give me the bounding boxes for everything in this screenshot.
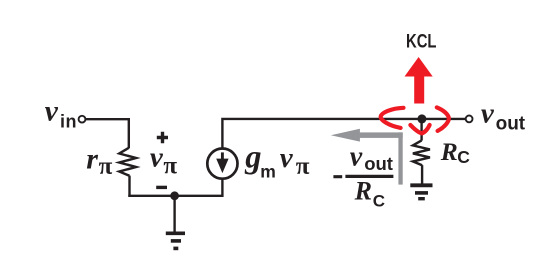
red curved stroke right (around node)	[437, 107, 449, 130]
current source bottom lead	[221, 179, 223, 197]
input terminal (open circle)	[79, 116, 86, 123]
svg-text:v: v	[280, 142, 294, 174]
label KCL	[406, 32, 437, 53]
output node dot	[417, 114, 426, 123]
fraction bar	[345, 175, 393, 178]
label v_out	[481, 97, 526, 134]
label g_m v_pi	[244, 139, 310, 181]
label R_C	[440, 137, 471, 167]
current source g_m v_pi	[207, 149, 237, 179]
svg-text:v: v	[150, 141, 164, 173]
red KCL arrow (up)	[405, 57, 433, 104]
label R_C denominator	[354, 177, 385, 211]
svg-text:C: C	[373, 191, 385, 210]
svg-text:π: π	[99, 153, 113, 180]
wire from v_in terminal to r_pi top	[86, 119, 129, 148]
svg-text:R: R	[354, 177, 372, 206]
svg-text:R: R	[440, 137, 458, 166]
ground symbol (left)	[166, 196, 185, 249]
ground symbol (right)	[410, 185, 432, 198]
wire r_pi bottom lead	[128, 176, 130, 197]
bottom wire from r_pi to current source	[128, 195, 222, 197]
red curved stroke bottom (arrow head v)	[410, 125, 429, 133]
resistor r_pi (zigzag)	[119, 148, 136, 176]
label v_out numerator	[350, 142, 393, 174]
output terminal (open circle)	[466, 116, 473, 123]
svg-text:v: v	[481, 97, 495, 129]
resistor R_C (zigzag)	[413, 140, 430, 165]
svg-text:m: m	[260, 162, 276, 182]
svg-text:π: π	[163, 152, 177, 179]
svg-text:π: π	[296, 153, 310, 180]
label r_pi	[86, 142, 112, 180]
svg-text:v: v	[350, 142, 363, 173]
label v_in	[45, 96, 77, 132]
label minus of -v_out/R_C	[333, 175, 342, 178]
R_C bottom lead	[421, 165, 423, 183]
red curved stroke left (around node)	[381, 108, 404, 128]
svg-text:out: out	[364, 153, 393, 174]
junction dot at ground node	[170, 191, 179, 200]
label v_pi	[150, 141, 178, 179]
svg-text:KCL: KCL	[406, 32, 437, 53]
plus sign of v_pi	[157, 132, 168, 143]
svg-text:out: out	[496, 114, 526, 135]
svg-text:r: r	[86, 142, 98, 175]
svg-text:v: v	[45, 96, 59, 128]
svg-text:g: g	[244, 139, 261, 175]
gray current arrow (elbow, pointing left)	[331, 129, 403, 185]
current source top lead and top wire to output node	[222, 119, 465, 149]
R_C top lead	[420, 119, 422, 141]
svg-text:C: C	[457, 147, 470, 167]
minus sign of v_pi	[156, 186, 167, 189]
svg-text:in: in	[60, 112, 77, 132]
